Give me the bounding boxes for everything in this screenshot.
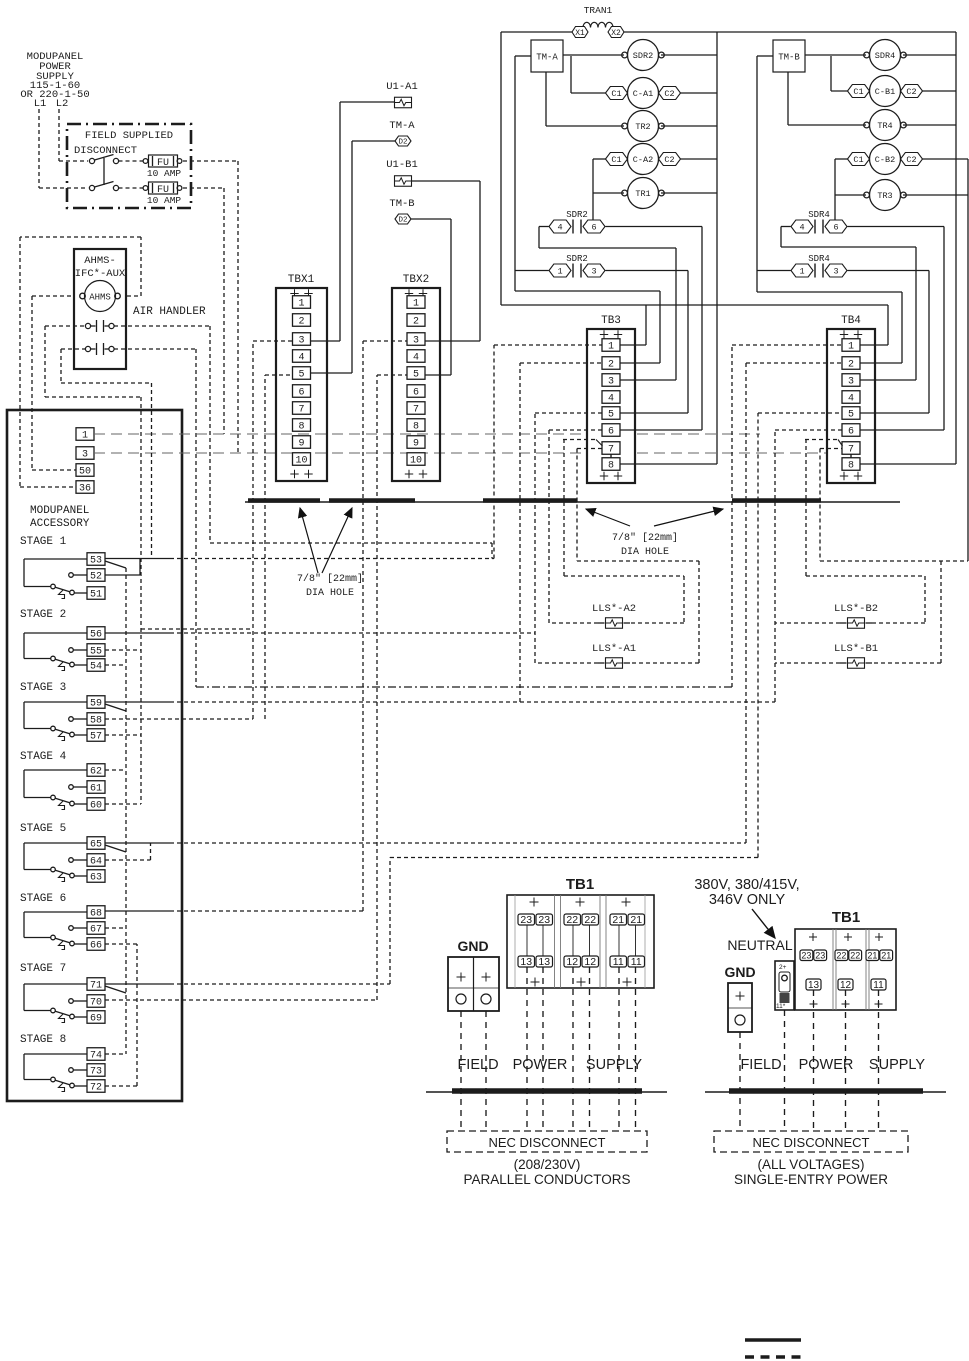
svg-text:GND: GND <box>724 964 755 980</box>
relay TR3 <box>864 180 907 211</box>
wire TM-B left pin trunk <box>757 56 773 292</box>
wire 66 to bus <box>105 943 137 945</box>
svg-text:8: 8 <box>848 461 854 472</box>
wire TM-A branch to C-A1 <box>571 56 606 93</box>
TB1 left section 22 <box>564 898 599 987</box>
wire 74 to bus <box>105 1053 126 1055</box>
wire TB4-1 lead <box>860 344 888 346</box>
svg-text:C-A2: C-A2 <box>633 155 653 165</box>
svg-text:2+: 2+ <box>779 964 787 971</box>
svg-text:6: 6 <box>591 223 596 233</box>
contact AHMS aux 2 <box>85 343 114 355</box>
bus vertical x968 <box>967 159 969 561</box>
wire LLS-B2 loop <box>775 440 925 624</box>
svg-text:73: 73 <box>90 1067 102 1078</box>
svg-text:1: 1 <box>82 431 88 442</box>
label 208/230V <box>514 1157 581 1172</box>
callout 7/8 dia hole right <box>586 509 723 558</box>
label POWER right <box>799 1057 854 1073</box>
wire 56 row long run <box>105 632 535 634</box>
air handler AHMS-IFC*-AUX box <box>74 249 126 369</box>
svg-text:TR4: TR4 <box>877 121 892 131</box>
svg-text:6: 6 <box>848 427 854 438</box>
svg-text:TM-B: TM-B <box>389 198 414 210</box>
svg-text:X1: X1 <box>575 29 585 38</box>
svg-text:7/8" [22mm]: 7/8" [22mm] <box>297 573 363 585</box>
wire SDR4-4 loop to TB4-3 <box>781 227 916 381</box>
terminal block TB3 <box>587 315 635 483</box>
wire terminal 3 run <box>94 452 827 454</box>
bus vertical x717 to TB3-8 <box>716 32 718 464</box>
wire TB3 7-8 link <box>610 454 612 458</box>
svg-text:12: 12 <box>840 980 852 991</box>
wire C-A1 C2 right <box>680 92 717 94</box>
label AIR HANDLER <box>133 306 206 318</box>
svg-text:62: 62 <box>90 767 102 778</box>
svg-text:TM-B: TM-B <box>778 53 800 63</box>
wire 65 row long run <box>105 842 746 844</box>
svg-text:9: 9 <box>413 439 419 450</box>
wire TR1 left junction <box>593 192 624 194</box>
svg-text:23: 23 <box>520 914 532 926</box>
trunk dash-dot y687 <box>196 686 732 688</box>
wire 55 to bus <box>105 649 141 651</box>
wire SDR4-3 to TB4-5 <box>848 271 930 414</box>
svg-text:1: 1 <box>298 299 304 310</box>
wire trunk to SDR4-1 <box>757 270 791 272</box>
label SUPPLY left <box>586 1057 642 1073</box>
svg-text:C-B1: C-B1 <box>875 87 895 97</box>
wire TM-B branch to C-B1 <box>831 56 848 91</box>
svg-text:TBX1: TBX1 <box>288 274 315 286</box>
svg-text:3: 3 <box>833 267 838 277</box>
svg-text:TM-A: TM-A <box>389 120 415 132</box>
svg-text:C1: C1 <box>853 155 863 165</box>
svg-text:L2: L2 <box>56 98 69 110</box>
trunk wire x761 TB4-5 <box>758 413 842 858</box>
wire trunk y292 to TB4-2 <box>757 292 902 363</box>
svg-text:6: 6 <box>833 223 838 233</box>
bus dashed vertical x151 <box>151 383 153 559</box>
control module TM-A box <box>531 40 563 72</box>
label FIELD right <box>740 1057 781 1073</box>
svg-text:SUPPLY: SUPPLY <box>586 1057 642 1073</box>
wire SDR2-3 to TB3-5 <box>606 271 689 414</box>
wire fuse1 to accessory terminal 3 <box>183 161 238 453</box>
svg-text:MODUPANEL: MODUPANEL <box>30 505 89 517</box>
wire TM-A to SDR2 <box>563 54 624 56</box>
svg-text:TB1: TB1 <box>566 876 594 893</box>
stage 1 relay contacts <box>20 536 105 601</box>
transformer TRAN1 <box>572 5 624 38</box>
contact AHMS aux 1 <box>85 320 114 332</box>
wire switch1 to fuse1 <box>119 160 144 162</box>
wire C-B1 C2 right <box>922 90 956 92</box>
wire TBX1-5 to TM-A-D2 <box>311 141 396 373</box>
svg-text:67: 67 <box>90 925 102 936</box>
wire TB3-3 lead <box>620 379 676 381</box>
panel edge line <box>245 501 900 503</box>
wire GND left drops <box>461 1011 486 1131</box>
wire LLS-A1 loop <box>535 561 699 663</box>
wire L1 to disconnect switch 2 <box>39 109 88 188</box>
wire TB3-8 lead <box>620 463 717 465</box>
wire 64 to bus <box>105 843 151 860</box>
svg-text:LLS*-B2: LLS*-B2 <box>834 603 878 615</box>
svg-text:9: 9 <box>298 439 304 450</box>
svg-text:3: 3 <box>82 450 88 461</box>
svg-text:C1: C1 <box>611 89 621 99</box>
wire TR3 right edge <box>903 194 968 196</box>
svg-text:2: 2 <box>298 317 304 328</box>
wire SDR4 right <box>903 54 956 56</box>
svg-text:74: 74 <box>90 1051 102 1062</box>
svg-text:12: 12 <box>584 956 596 968</box>
svg-text:13: 13 <box>520 956 532 968</box>
terminal block TB1 right label <box>832 909 860 926</box>
svg-text:55: 55 <box>90 647 102 658</box>
wire 57 to bus <box>105 734 141 736</box>
wire AHMS coil right return loop <box>20 237 141 487</box>
svg-text:21: 21 <box>867 950 877 960</box>
svg-text:11: 11 <box>631 956 642 968</box>
svg-text:C2: C2 <box>906 87 916 97</box>
wire 59 row long run <box>105 701 775 703</box>
wire AHMS coil left to terminal 50 <box>32 296 80 470</box>
node MODUPANEL POWER SUPPLY label <box>20 51 89 110</box>
svg-text:8: 8 <box>608 461 614 472</box>
svg-text:2: 2 <box>848 360 854 371</box>
contactor C-A2 <box>606 144 681 175</box>
TB1 right section 22 <box>835 933 862 1008</box>
relay coil AHMS <box>80 281 121 312</box>
terminal block TB1 left body <box>507 895 654 988</box>
svg-text:AIR HANDLER: AIR HANDLER <box>133 306 206 318</box>
stage 2 relay contacts <box>20 609 105 673</box>
wire 70 to bus <box>105 999 377 1001</box>
wire C-A2 C1 to SDR2-6 <box>593 159 606 226</box>
wire TR3 left junction <box>835 194 866 196</box>
svg-text:POWER: POWER <box>513 1057 568 1073</box>
wire TB1 right 11 drop <box>878 990 880 1131</box>
TB1 left section 21 <box>610 898 645 987</box>
svg-text:FIELD SUPPLIED: FIELD SUPPLIED <box>85 130 173 142</box>
wire TB4-8 lead <box>860 463 956 465</box>
svg-text:3: 3 <box>591 267 596 277</box>
panel thick segment 248 <box>248 498 320 503</box>
terminal block TB1 left label <box>566 876 594 893</box>
wire 59 diagonal <box>105 704 126 711</box>
trunk wire TBX2-5 vertical <box>377 375 407 1000</box>
panel thick segment 329 <box>329 498 415 503</box>
trunk wire y859 <box>390 857 758 859</box>
svg-text:10 AMP: 10 AMP <box>147 168 182 179</box>
svg-text:4: 4 <box>608 394 614 405</box>
wire TB3-7 hook <box>563 440 603 562</box>
svg-text:7: 7 <box>848 445 854 456</box>
svg-text:1: 1 <box>413 299 419 310</box>
wire contact1 right <box>114 326 492 559</box>
svg-text:22: 22 <box>850 950 860 960</box>
svg-text:DIA HOLE: DIA HOLE <box>621 547 669 558</box>
svg-text:LLS*-A1: LLS*-A1 <box>592 643 636 655</box>
label NEC DISCONNECT left <box>488 1135 605 1150</box>
svg-text:4: 4 <box>413 353 419 364</box>
wire 72 to bus <box>105 944 137 1086</box>
liquid line solenoid LLS*-A1 <box>592 643 636 668</box>
panel line bottom left <box>426 1091 667 1092</box>
svg-text:AHMS: AHMS <box>89 293 111 303</box>
wire neutral drop <box>784 1010 786 1131</box>
wire TB1 22 drops <box>573 967 590 1131</box>
svg-text:(208/230V): (208/230V) <box>514 1157 581 1172</box>
svg-text:380V, 380/415V,: 380V, 380/415V, <box>694 877 799 893</box>
svg-text:1: 1 <box>799 267 804 277</box>
fuse FU2 10 AMP <box>143 182 182 206</box>
legend dashed line <box>745 1355 801 1359</box>
svg-text:6: 6 <box>608 427 614 438</box>
svg-text:72: 72 <box>90 1083 102 1094</box>
wire TM-A left pin trunk <box>515 56 531 291</box>
svg-text:TB4: TB4 <box>841 315 861 327</box>
svg-text:STAGE 5: STAGE 5 <box>20 823 66 835</box>
svg-text:346V ONLY: 346V ONLY <box>709 892 786 908</box>
svg-text:7: 7 <box>413 405 419 416</box>
svg-text:23: 23 <box>815 950 825 960</box>
panel line bottom right <box>705 1091 946 1092</box>
legend solid line <box>745 1338 801 1342</box>
terminal 3 <box>76 447 94 461</box>
contactor C-B1 <box>848 76 923 107</box>
wire X1 to left trunk <box>501 32 572 305</box>
control module TM-B box <box>773 40 805 72</box>
svg-text:54: 54 <box>90 662 102 673</box>
svg-text:C1: C1 <box>853 87 863 97</box>
wire TB4 7-8 link <box>850 454 852 458</box>
auxiliary contact SDR4 4-6 <box>791 210 847 234</box>
wire TB3-5 lead <box>620 412 688 414</box>
wire X2 common bus A <box>624 31 956 33</box>
svg-text:NEUTRAL: NEUTRAL <box>727 937 793 953</box>
svg-text:50: 50 <box>79 467 91 478</box>
svg-text:65: 65 <box>90 840 102 851</box>
svg-text:5: 5 <box>848 410 854 421</box>
svg-text:6: 6 <box>413 388 419 399</box>
timer contact TM-B D2 <box>389 198 414 225</box>
svg-text:66: 66 <box>90 941 102 952</box>
svg-text:X2: X2 <box>611 29 621 38</box>
svg-text:SDR2: SDR2 <box>566 254 588 264</box>
svg-text:TB1: TB1 <box>832 909 860 926</box>
wire C-B2 C1 to SDR4-6 <box>835 159 848 226</box>
wire TR4 right <box>903 124 956 126</box>
label 380V only <box>694 877 799 908</box>
wire switch2 to fuse2 <box>119 187 144 189</box>
stage 8 relay contacts <box>20 1034 105 1094</box>
wire C-B2 C2 right edge <box>922 158 968 160</box>
svg-text:23: 23 <box>538 914 550 926</box>
wire TBX1-3 to U1-A1 <box>311 102 395 341</box>
liquid line solenoid LLS*-B1 <box>834 643 878 668</box>
nec disconnect box left <box>447 1131 647 1152</box>
svg-text:PARALLEL CONDUCTORS: PARALLEL CONDUCTORS <box>463 1172 630 1187</box>
svg-text:NEC DISCONNECT: NEC DISCONNECT <box>488 1135 605 1150</box>
svg-text:10: 10 <box>410 456 422 467</box>
wire GND right drop <box>739 1032 741 1131</box>
svg-text:4: 4 <box>557 223 562 233</box>
wire TB4-3 lead <box>860 379 916 381</box>
svg-text:10 AMP: 10 AMP <box>147 195 182 206</box>
label POWER left <box>513 1057 568 1073</box>
svg-text:68: 68 <box>90 909 102 920</box>
field supplied disconnect enclosure <box>67 124 191 208</box>
wire 60 to bus <box>105 803 141 805</box>
contactor C-A1 <box>606 78 681 109</box>
wire 62 to bus <box>105 769 126 771</box>
wire TB3-1 lead <box>620 344 646 346</box>
wire C-A2 C2 right <box>680 158 717 160</box>
wire TB4-7 hook <box>805 440 843 562</box>
svg-text:3: 3 <box>608 377 614 388</box>
svg-text:STAGE 6: STAGE 6 <box>20 893 66 905</box>
svg-text:TBX2: TBX2 <box>403 274 429 286</box>
svg-text:53: 53 <box>90 556 102 567</box>
svg-text:C1: C1 <box>611 155 621 165</box>
auxiliary contact SDR2 1-3 <box>549 254 605 278</box>
svg-text:22: 22 <box>836 950 846 960</box>
svg-text:5: 5 <box>608 410 614 421</box>
svg-text:8: 8 <box>413 422 419 433</box>
svg-text:STAGE 7: STAGE 7 <box>20 963 66 975</box>
TB1 right section 21 <box>866 933 893 1008</box>
svg-text:70: 70 <box>90 998 102 1009</box>
relay TR1 <box>622 178 665 209</box>
trunk wire x775 TB4-6 to LLS-B1 <box>775 430 842 702</box>
svg-text:STAGE 3: STAGE 3 <box>20 682 66 694</box>
svg-text:11: 11 <box>613 956 624 968</box>
svg-text:59: 59 <box>90 699 102 710</box>
svg-text:C-A1: C-A1 <box>633 89 653 99</box>
trunk wire y631 TBX1-3 <box>141 341 292 719</box>
svg-text:7/8" [22mm]: 7/8" [22mm] <box>612 532 678 544</box>
svg-text:TM-A: TM-A <box>536 53 558 63</box>
stage 5 relay contacts <box>20 823 105 884</box>
svg-text:5: 5 <box>413 370 419 381</box>
liquid line solenoid LLS*-A2 <box>592 603 636 628</box>
svg-text:11*: 11* <box>776 1003 786 1010</box>
timer contact TM-A D2 <box>389 120 415 147</box>
wire TB3-2 lead <box>620 362 660 364</box>
terminal 1 <box>76 428 94 442</box>
svg-text:D2: D2 <box>398 217 407 225</box>
thermal element U1-B1 <box>386 159 418 186</box>
svg-text:NEC DISCONNECT: NEC DISCONNECT <box>752 1135 869 1150</box>
TB1 right section 23 <box>800 933 827 1008</box>
wire TB3-1 riser <box>645 305 647 345</box>
terminal block TB1 right body <box>795 929 896 1010</box>
trunk wire TB3-1 stub <box>494 345 602 559</box>
svg-text:DIA HOLE: DIA HOLE <box>306 588 354 599</box>
wire SDR2-6 to TB3-6 <box>606 227 703 431</box>
svg-text:STAGE 8: STAGE 8 <box>20 1034 66 1046</box>
svg-text:STAGE 2: STAGE 2 <box>20 609 66 621</box>
wire terminal 1 run <box>94 433 760 435</box>
svg-text:12: 12 <box>566 956 578 968</box>
auxiliary contact SDR2 4-6 <box>549 210 605 234</box>
modupanel accessory enclosure <box>7 410 182 1101</box>
wire 71 row long run <box>105 983 390 985</box>
wire TM-B bottom to TR4 <box>788 72 866 125</box>
svg-text:51: 51 <box>90 590 102 601</box>
svg-text:13: 13 <box>538 956 550 968</box>
svg-text:52: 52 <box>90 572 102 583</box>
contactor C-B2 <box>848 144 923 175</box>
wire SDR2-4 loop to TB3-3 <box>539 227 676 381</box>
svg-text:TR3: TR3 <box>877 191 892 201</box>
trunk wire TB3-5 stub <box>535 413 602 663</box>
svg-text:FIELD: FIELD <box>740 1057 781 1073</box>
svg-text:TRAN1: TRAN1 <box>584 5 613 16</box>
wire TB1 right 13 drop <box>813 990 815 1131</box>
wire TB1 21 drops <box>619 967 636 1131</box>
svg-text:TR1: TR1 <box>635 189 650 199</box>
trunk wire x732 TB4-1 <box>732 345 842 687</box>
svg-text:21: 21 <box>881 950 891 960</box>
wire 58 row run <box>105 718 253 720</box>
wire 53 row long run <box>105 558 494 560</box>
svg-text:IFC*-AUX: IFC*-AUX <box>75 268 126 280</box>
panel thick segment 483 <box>483 498 577 503</box>
svg-text:U1-B1: U1-B1 <box>386 159 418 171</box>
svg-text:SUPPLY: SUPPLY <box>869 1057 925 1073</box>
svg-text:56: 56 <box>90 630 102 641</box>
arrow 380V to neutral <box>752 909 775 938</box>
callout 7/8 dia hole left <box>297 508 363 599</box>
svg-text:4: 4 <box>848 394 854 405</box>
relay SDR4 <box>864 40 907 71</box>
wire TB1 right 12 drop <box>845 990 847 1131</box>
wire trunk y305 X1 common <box>501 305 888 345</box>
svg-text:1: 1 <box>557 267 562 277</box>
wire 54 to bus <box>105 664 126 666</box>
svg-text:POWER: POWER <box>799 1057 854 1073</box>
svg-text:ACCESSORY: ACCESSORY <box>30 518 90 530</box>
wire 67 to bus <box>105 927 126 929</box>
wire TB4-6 lead <box>860 429 944 431</box>
wire LLS-B1 loop <box>775 561 968 663</box>
wire 53 diagonal to bus <box>105 561 126 568</box>
svg-text:64: 64 <box>90 857 102 868</box>
bus dashed vertical x126 <box>125 568 127 1054</box>
wire TR1 right <box>661 192 717 194</box>
svg-text:3: 3 <box>413 336 419 347</box>
svg-text:69: 69 <box>90 1014 102 1025</box>
svg-text:(ALL VOLTAGES): (ALL VOLTAGES) <box>757 1157 864 1172</box>
wire SDR2 right <box>661 54 717 56</box>
svg-text:LLS*-A2: LLS*-A2 <box>592 603 636 615</box>
svg-text:58: 58 <box>90 716 102 727</box>
svg-text:21: 21 <box>630 914 642 926</box>
svg-text:DISCONNECT: DISCONNECT <box>74 145 137 157</box>
svg-text:2: 2 <box>413 317 419 328</box>
svg-text:60: 60 <box>90 801 102 812</box>
terminal 50 <box>76 464 94 478</box>
switch S2 <box>89 182 118 191</box>
wire TM-B-D2 to TBX2-5 <box>411 219 451 375</box>
label MODUPANEL ACCESSORY <box>30 505 90 530</box>
stage 6 relay contacts <box>20 893 105 952</box>
svg-text:11: 11 <box>873 980 884 991</box>
